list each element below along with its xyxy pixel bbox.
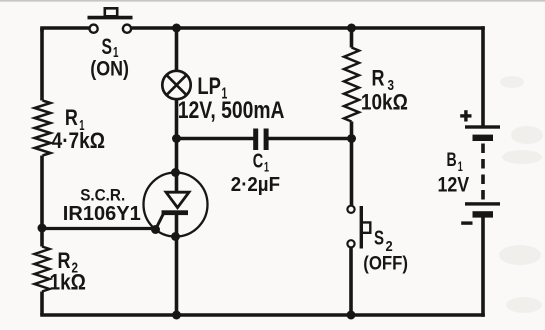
svg-text:R: R	[372, 66, 385, 91]
label R2	[58, 248, 79, 277]
label B1	[447, 150, 464, 174]
label S2	[374, 228, 393, 255]
svg-text:12V: 12V	[438, 174, 470, 197]
wire R3 branch (top wire to R3)	[350, 28, 354, 48]
resistor R3	[344, 48, 359, 122]
svg-text:2·2µF: 2·2µF	[231, 174, 280, 196]
lamp LP1	[162, 71, 190, 99]
wire gate horizontal from left wire to SCR gate	[42, 227, 156, 230]
wire left vertical (R2 to bottom)	[40, 292, 44, 316]
label R3	[372, 66, 395, 95]
battery dashed link	[481, 144, 485, 203]
resistor R2	[35, 247, 50, 292]
wire right vertical (battery - to bottom corner)	[481, 216, 485, 315]
SCR U1 circle	[144, 173, 208, 237]
svg-text:C: C	[253, 151, 263, 173]
SCR gate lead	[156, 213, 165, 230]
wire C1 branch right segment	[269, 137, 352, 141]
svg-text:S: S	[102, 34, 113, 59]
wire right vertical (top corner to battery +)	[481, 28, 485, 125]
S2 button cap	[361, 222, 370, 232]
S2 actuator bar	[360, 206, 363, 249]
wire left vertical (R1 to gate node)	[40, 156, 44, 247]
pushbutton S1	[88, 8, 133, 33]
junction node left wire / gate wire	[38, 224, 47, 233]
svg-text:1: 1	[264, 159, 269, 175]
junction node SCR gate	[151, 225, 160, 234]
junction node bottom wire / SCR branch	[172, 311, 181, 320]
svg-text:12V, 500mA: 12V, 500mA	[178, 97, 285, 124]
pushbutton S2	[347, 206, 370, 249]
SCR triangle (anode-cathode)	[166, 192, 189, 207]
wire C1 branch left segment	[177, 137, 254, 141]
S1 button cap	[105, 8, 117, 16]
S1 right contact	[123, 25, 131, 33]
svg-text:R: R	[65, 105, 78, 130]
S1 actuator bar	[88, 16, 133, 20]
wire top horizontal from S1 to top-right corner	[131, 26, 483, 30]
battery B1 bottom cell positive plate	[465, 202, 500, 205]
label LP1	[197, 73, 227, 103]
svg-text:2: 2	[386, 238, 393, 255]
junction node SCR cathode	[171, 232, 180, 241]
svg-text:LP: LP	[197, 73, 221, 100]
capacitor C1	[253, 129, 268, 151]
junction node top wire / lamp branch	[172, 24, 181, 33]
svg-text:B: B	[447, 150, 457, 171]
svg-text:10kΩ: 10kΩ	[361, 90, 408, 115]
label C1	[253, 151, 269, 175]
svg-text:IR106Y1: IR106Y1	[63, 203, 141, 225]
svg-text:S.C.R.: S.C.R.	[80, 187, 125, 205]
wire LP1 to SCR anode	[175, 99, 179, 192]
junction node LP1 / C1 wire	[172, 134, 181, 143]
wire S2 to bottom	[349, 248, 353, 316]
S1 left contact	[90, 25, 98, 33]
wire R3 to S2	[350, 122, 354, 206]
junction node C1 wire / R3-S2 branch	[347, 134, 356, 143]
junction node SCR anode	[171, 168, 180, 177]
svg-text:1: 1	[458, 159, 463, 174]
SCR cathode bar	[162, 210, 189, 215]
wire left vertical (top wire to R1)	[40, 28, 44, 101]
label S1	[102, 34, 119, 61]
resistor R1	[35, 101, 51, 156]
plus sign	[460, 110, 471, 121]
wire top-left horizontal from left corner to S1	[42, 28, 90, 30]
wire lamp branch (top wire down to LP1)	[175, 28, 179, 71]
battery B1 top cell negative plate	[473, 135, 494, 141]
wire bottom horizontal	[42, 313, 483, 317]
svg-text:4·7kΩ: 4·7kΩ	[52, 128, 105, 153]
minus sign	[461, 221, 472, 224]
svg-text:1kΩ: 1kΩ	[50, 270, 86, 295]
junction node bottom wire / S2 branch	[347, 311, 356, 320]
svg-text:(ON): (ON)	[90, 57, 129, 80]
S2 bottom contact	[347, 240, 354, 247]
svg-text:S: S	[374, 228, 384, 250]
junction node top wire / R3 branch	[347, 24, 356, 33]
battery B1 bottom cell negative plate	[473, 211, 494, 217]
label R1	[65, 105, 85, 134]
S2 top contact	[347, 206, 354, 213]
battery B1 top cell positive plate	[465, 125, 500, 128]
wire SCR cathode down to bottom wire	[175, 214, 179, 315]
svg-text:(OFF): (OFF)	[363, 254, 408, 275]
